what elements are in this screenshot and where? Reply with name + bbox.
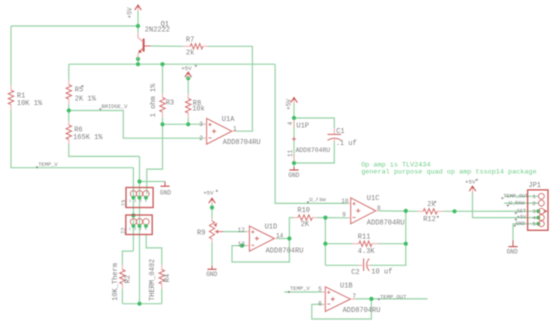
origin mark +5V R8 <box>195 65 197 67</box>
flag SET JP1 <box>515 212 517 214</box>
svg-text:U1D: U1D <box>265 224 278 232</box>
wire J3 pin3 from node above <box>147 124 163 194</box>
svg-text:BRIDGE_V: BRIDGE_V <box>102 104 129 110</box>
svg-text:+5V: +5V <box>203 190 214 197</box>
svg-text:1 2 3 4: 1 2 3 4 <box>129 200 147 204</box>
svg-text:10K_Therm: 10K_Therm <box>112 263 120 301</box>
wire +5V to Q1 collector <box>137 11 139 33</box>
svg-text:+5V: +5V <box>286 99 293 110</box>
op-amp U1D <box>246 226 277 251</box>
wire R6 bottom to pin2 corner <box>69 145 140 157</box>
svg-text:4: 4 <box>287 121 294 125</box>
svg-text:2: 2 <box>199 135 203 142</box>
op-amp U1C <box>348 198 380 224</box>
junction U1C output node <box>404 209 408 213</box>
svg-text:C1: C1 <box>336 128 344 136</box>
connector J2 <box>121 215 153 235</box>
transistor Q1 2N2222 <box>138 33 151 59</box>
svg-text:+5V: +5V <box>181 65 192 72</box>
wire +5V to R9 top <box>211 204 213 219</box>
wire +5V to R8 <box>187 78 189 94</box>
svg-text:12: 12 <box>238 227 246 234</box>
svg-text:C2: C2 <box>351 269 359 277</box>
junction JP1 pin5 pad <box>536 222 540 226</box>
wire +5V down over to JP1 pin4 <box>473 192 539 218</box>
wire R3 bottom to node <box>162 118 164 125</box>
junction Q1 emitter pin <box>136 57 140 61</box>
svg-text:R4: R4 <box>164 274 172 282</box>
svg-text:3: 3 <box>199 121 203 128</box>
svg-text:1 ohm 1%: 1 ohm 1% <box>150 83 158 117</box>
wire +5V into U1P pin4 <box>293 104 295 119</box>
svg-text:+5V: +5V <box>465 178 476 185</box>
flag TEMP_OUT JP1 <box>501 197 503 199</box>
+5V supply at U1P <box>291 97 298 104</box>
svg-text:9: 9 <box>342 212 346 219</box>
junction R11 right node <box>404 242 408 246</box>
potentiometer R9 <box>209 218 223 242</box>
wire JP1 pin1 TEMP_OUT stub <box>505 195 539 197</box>
wire U1P supply loop to C1 top <box>294 118 334 128</box>
svg-text:ADD8704RU: ADD8704RU <box>343 307 381 315</box>
svg-text:TEMP_OUT: TEMP_OUT <box>503 193 528 199</box>
junction R10/U1C pin9 node <box>323 216 327 220</box>
origin mark +5V R9 <box>216 190 218 192</box>
svg-text:TEMP_OUT: TEMP_OUT <box>380 293 407 300</box>
flag BRIDGE_V <box>99 108 101 110</box>
junction JP1 pin4 pad <box>536 216 540 220</box>
wire R9 wiper to U1D pin12 <box>223 231 246 233</box>
svg-text:5: 5 <box>318 286 322 293</box>
svg-text:ADD8704RU: ADD8704RU <box>266 247 304 255</box>
svg-text:+5V: +5V <box>517 215 527 221</box>
op-amp U1A <box>203 118 236 144</box>
wire R12 to JP1 pin3 SET <box>444 210 539 212</box>
flag GND JP1 pin5 <box>514 225 516 227</box>
wire R9 bottom to GND <box>211 243 213 266</box>
ground at R9 <box>207 266 216 269</box>
wire left rail x=11 from +5V wire to R1 <box>10 26 12 85</box>
wire node down to R11 left <box>324 218 326 266</box>
op-amp power pins U1P <box>292 120 296 162</box>
svg-text:2: 2 <box>532 200 536 207</box>
svg-text:J3: J3 <box>121 199 128 207</box>
wire node to U1A pin3 <box>163 123 204 125</box>
flag +5V JP1 pin4 <box>515 218 517 220</box>
resistor R12 <box>418 209 444 214</box>
junction JP1 pin3 pad <box>536 209 540 213</box>
wire TEMP_V vertical into J3/J2 pin1 <box>132 168 134 251</box>
svg-text:R12: R12 <box>423 216 436 224</box>
junction J2 pin1 top <box>131 213 135 217</box>
svg-text:U1C: U1C <box>367 195 380 203</box>
wire +5V rail top-left horizontal <box>11 25 138 27</box>
origin mark R5 <box>81 85 83 87</box>
svg-text:5: 5 <box>532 221 536 228</box>
wire JP1 pin5 to GND <box>513 224 539 240</box>
junction +5V at R9 top <box>210 205 214 209</box>
svg-text:TEMP_V: TEMP_V <box>290 285 311 292</box>
wire R11 left lead wire <box>325 243 352 245</box>
svg-text:GND: GND <box>507 249 518 256</box>
origin mark 2k <box>434 201 436 203</box>
resistor R11 <box>352 241 378 246</box>
svg-text:8: 8 <box>377 205 381 212</box>
wire J2 pin1 step to R2 <box>122 251 133 265</box>
svg-text:R7: R7 <box>186 37 194 45</box>
wire R11 right to vertical <box>379 243 406 245</box>
flag TEMP_V left <box>36 166 38 168</box>
wire U1C output to R12 <box>380 210 418 212</box>
wire U1A output up over to R7 <box>208 46 253 131</box>
junction U1B output TEMP_OUT <box>369 297 373 301</box>
resistor R7 <box>183 44 207 49</box>
svg-text:GND: GND <box>206 271 217 278</box>
svg-text:U1A: U1A <box>222 116 235 124</box>
resistor R6 <box>66 121 71 144</box>
svg-text:general purpose quad op amp ts: general purpose quad op amp tssop14 pack… <box>361 168 536 176</box>
junction +5V / left rail / Q1 collector <box>136 24 140 28</box>
resistor R2 10K thermistor <box>120 265 125 289</box>
svg-text:1: 1 <box>233 125 237 132</box>
svg-text:U_RAW: U_RAW <box>509 201 525 207</box>
svg-text:ADD8704RU: ADD8704RU <box>223 139 261 147</box>
junction rail to R3 branch <box>160 62 164 66</box>
wire emitter rail y=64 <box>69 63 275 65</box>
wire U1P left side pins <box>293 118 295 163</box>
svg-text:R5: R5 <box>75 86 83 94</box>
wire R5 bottom to BRIDGE_V node <box>68 104 70 121</box>
ground at JP1 pin5 <box>508 240 517 246</box>
resistor R3 <box>160 93 165 117</box>
svg-text:10k: 10k <box>192 106 205 114</box>
svg-text:R3: R3 <box>166 100 174 108</box>
wire R8 bottom to node <box>187 118 189 124</box>
junction U1P pin4 +5V node <box>292 116 296 120</box>
svg-text:R11: R11 <box>358 233 371 241</box>
capacitor C2 <box>359 258 371 271</box>
junction bottom R2/R4/pin2 node <box>137 302 141 306</box>
flag TEMP_V U1B <box>288 291 290 293</box>
resistor R4 thermistor <box>159 265 164 289</box>
svg-text:.1 uf: .1 uf <box>336 140 357 148</box>
wire J3 pin2 GND branch <box>140 181 166 183</box>
svg-text:13: 13 <box>238 241 246 248</box>
connector JP1 <box>528 190 548 230</box>
wire BRIDGE_V to U1A pin2 <box>69 111 204 139</box>
svg-text:U_raw: U_raw <box>309 196 326 203</box>
svg-text:R9: R9 <box>197 230 205 238</box>
svg-text:ADD8704RU: ADD8704RU <box>367 219 405 227</box>
svg-text:J2: J2 <box>121 227 128 235</box>
svg-text:4.3K: 4.3K <box>358 248 376 256</box>
svg-text:11: 11 <box>287 149 294 157</box>
wire U1D output to R10 <box>278 218 294 239</box>
resistor R10 <box>293 215 317 220</box>
wire U1B output TEMP_OUT <box>355 298 427 300</box>
svg-text:10: 10 <box>341 198 349 205</box>
svg-text:U1B: U1B <box>340 283 353 291</box>
svg-text:7: 7 <box>352 293 356 300</box>
wire R10 to node <box>317 217 325 219</box>
wire pin2 vertical J3/J2 down to bottom junction <box>139 156 141 303</box>
wire R3 top from rail <box>162 64 164 93</box>
svg-text:SET: SET <box>517 208 526 214</box>
wire bottom joining R2 and R4 <box>122 303 161 305</box>
svg-text:14: 14 <box>276 232 284 239</box>
svg-text:2K 1%: 2K 1% <box>75 96 97 104</box>
junction U1D output node <box>287 236 291 240</box>
wire JP1 pin2 U_RAW stub <box>504 202 539 204</box>
svg-text:10K 1%: 10K 1% <box>17 100 43 108</box>
svg-text:R2: R2 <box>124 275 132 283</box>
wire R4 bottom <box>161 289 163 304</box>
svg-text:GND: GND <box>160 189 171 196</box>
junction R3/R8/U1A pin3 node <box>160 122 164 126</box>
svg-text:TEMP_V: TEMP_V <box>38 162 58 168</box>
wire C2 left <box>325 264 358 266</box>
junction +5V at R8 top <box>186 76 190 80</box>
svg-text:U1P: U1P <box>296 123 309 131</box>
wire R2 bottom <box>121 289 123 304</box>
wire R4 branch from J2 pin3 <box>146 235 162 265</box>
svg-text:ADD8704RU: ADD8704RU <box>296 147 331 154</box>
flag TEMP_OUT U1B <box>378 298 380 300</box>
wire C2 right <box>371 211 406 265</box>
svg-text:2k: 2k <box>186 50 194 58</box>
flag U_raw <box>307 201 309 203</box>
svg-text:GND: GND <box>288 172 299 179</box>
resistor R1 <box>8 85 13 109</box>
wire rail right down to U1C pin10 (U_raw) <box>275 64 347 203</box>
svg-text:+5V: +5V <box>127 7 134 18</box>
ground at U1P pin11 <box>289 167 298 170</box>
op-amp U1B <box>322 287 355 312</box>
wire R7 to Q1 base <box>151 45 183 47</box>
svg-text:JP1: JP1 <box>528 182 541 190</box>
junction U1P pin11 GND node <box>292 161 296 165</box>
svg-text:GND: GND <box>516 221 525 227</box>
+5V supply at JP1 <box>469 185 476 192</box>
origin mark R12 <box>437 216 439 218</box>
svg-text:2K: 2K <box>301 221 310 229</box>
resistor R5 <box>66 80 71 104</box>
wire rail down to R5 <box>68 64 70 80</box>
svg-text:THERM_0402: THERM_0402 <box>149 259 157 301</box>
svg-text:1 2 3 4: 1 2 3 4 <box>129 228 147 232</box>
svg-text:6: 6 <box>318 301 322 308</box>
junction R11 left node <box>323 242 327 246</box>
wire U1B pin6 feedback loop <box>312 299 372 319</box>
+5V supply at R9 <box>209 197 216 204</box>
wire C1 bottom to U1P pin11 loop <box>294 142 334 163</box>
junction emitter on rail <box>136 62 140 66</box>
wire U1P pin11 to GND <box>293 163 295 167</box>
svg-text:165K 1%: 165K 1% <box>73 134 103 142</box>
capacitor C1 <box>328 128 342 142</box>
flag U_RAW JP1 <box>507 204 509 206</box>
svg-text:10 uf: 10 uf <box>371 269 392 277</box>
ground at J3 pin2 <box>160 182 169 187</box>
+5V supply top (Q1 collector) <box>135 4 142 11</box>
resistor R8 <box>186 94 191 118</box>
junction R12 output SET wire <box>452 209 456 213</box>
svg-text:2N2222: 2N2222 <box>145 26 170 34</box>
svg-text:R10: R10 <box>297 207 310 215</box>
wire U1D pin13 feedback loop <box>232 239 289 263</box>
connector J3 <box>121 188 153 208</box>
junction J3 pin2 GND tap <box>137 179 141 183</box>
junction U1D pin13 <box>240 244 244 248</box>
wire R1 bottom to TEMP_V corner <box>11 110 133 168</box>
origin mark +5V JP1 <box>476 179 478 181</box>
wire node to U1C pin9 <box>325 217 347 219</box>
+5V supply at R8 <box>185 71 192 78</box>
wire Q1 emitter to rail <box>137 59 139 64</box>
junction R5/R6 BRIDGE_V node <box>67 108 71 112</box>
wire TEMP_V stub to U1B pin5 <box>284 291 322 293</box>
junction R8 bottom on node wire <box>186 122 190 126</box>
